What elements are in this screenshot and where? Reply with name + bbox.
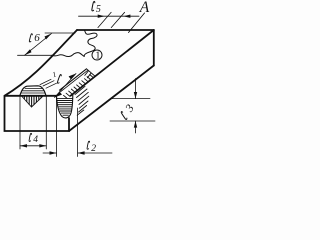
svg-text:4: 4: [33, 135, 38, 145]
dimension l3 extension line upper: [112, 98, 150, 100]
groove 2 front curl blob outline (right): [57, 95, 73, 118]
groove 2 band top strip line: [61, 70, 88, 91]
svg-text:6: 6: [34, 32, 40, 44]
groove 1 V notch vertical hatching: [24, 97, 41, 107]
label l2: [87, 141, 96, 154]
groove 2 side-face hatch extension: [75, 86, 89, 115]
label l3: [120, 102, 137, 119]
arrowhead l2 right (points left at right ext): [78, 151, 85, 154]
block right vertical edge: [153, 30, 155, 66]
dimension l6 extension line lower: [18, 54, 53, 56]
dimension l4 extension line right: [45, 97, 47, 150]
dimension l3 line lower segment: [135, 121, 137, 133]
wavy break line on top face: [52, 30, 97, 57]
dimension l2 line right part: [78, 152, 112, 154]
arrowhead l5 left (points right at left tick): [98, 15, 105, 18]
svg-text:1: 1: [95, 51, 100, 62]
arrowhead l4 right: [39, 144, 46, 147]
svg-text:A: A: [139, 0, 150, 16]
arrowhead l1 upper: [69, 74, 76, 80]
dimension l6 arrow line: [25, 34, 52, 56]
dimension l5 line: [79, 15, 140, 17]
arrowhead l6 lower: [25, 49, 32, 55]
block left receding edge: [5, 30, 78, 96]
circled 1 marker circle: [92, 50, 102, 60]
dimension l2 extension line left: [56, 97, 58, 157]
dimension l1 arrow line: [55, 74, 77, 98]
dimension l2 extension line right: [77, 108, 79, 157]
arrowhead l3 lower (points up): [134, 121, 137, 128]
arrowhead l1 lower: [55, 92, 63, 98]
block back top edge: [77, 29, 154, 31]
view A leader line: [129, 13, 145, 33]
groove 1 V notch outline: [22, 97, 43, 108]
block front face: [5, 96, 70, 131]
dimension l3 line upper segment: [135, 79, 137, 99]
dimension l4 line: [20, 145, 46, 147]
dimension l3 extension line lower: [110, 120, 155, 122]
label l5: [92, 1, 101, 15]
arrowhead l6 upper: [45, 34, 52, 40]
groove 1 dome contour lines: [22, 89, 46, 93]
groove 1 stub band lines: [40, 79, 57, 88]
arrowhead l4 left: [20, 144, 27, 147]
dimension l4 extension line left: [19, 97, 21, 150]
groove 2 band diagonal hatching: [64, 75, 94, 99]
dimension l5 tick right: [111, 12, 124, 27]
label l6: [29, 32, 40, 44]
svg-text:2: 2: [91, 144, 96, 154]
arrowhead l3 upper (points down): [134, 92, 137, 99]
groove 2 band end cap: [85, 69, 95, 78]
groove 2 blob horizontal hatching: [57, 98, 73, 115]
dimension l6 extension line upper: [45, 32, 75, 34]
groove 1 dome (left): [20, 86, 46, 95]
label l1: [51, 70, 61, 84]
dimension l5 tick left: [98, 12, 111, 27]
groove 2 band upper edge: [60, 69, 87, 90]
block top-right receding edge: [71, 30, 154, 96]
label l4: [29, 133, 38, 145]
block bottom receding edge: [69, 66, 154, 132]
arrowhead l2 left (points right at left ext): [50, 151, 57, 154]
dimension l2 line left part: [43, 152, 57, 154]
svg-text:5: 5: [96, 4, 101, 15]
arrowhead l5 right (points left at right tick): [123, 15, 130, 18]
